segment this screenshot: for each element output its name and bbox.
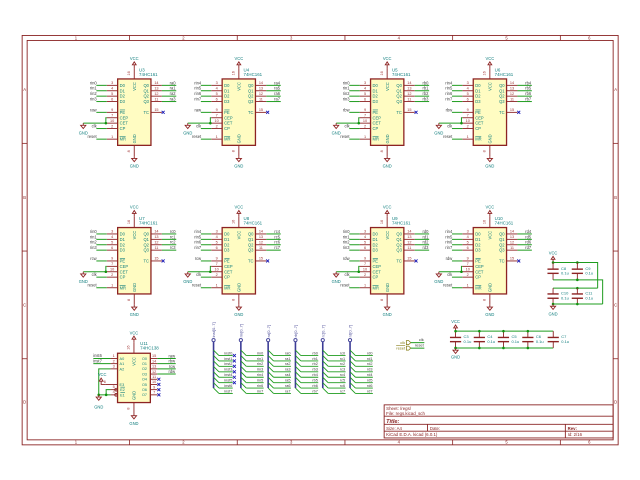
svg-text:rc1: rc1 xyxy=(340,357,345,361)
U10 pin PE (pin 9) xyxy=(462,260,473,262)
svg-text:rd3: rd3 xyxy=(423,245,430,250)
svg-text:rd0: rd0 xyxy=(367,351,373,355)
svg-text:74HC161: 74HC161 xyxy=(495,221,514,226)
svg-text:D3: D3 xyxy=(373,248,379,253)
wire net rin3 to U3.D3 xyxy=(96,101,106,103)
wire U11.O3 to net rdw xyxy=(157,373,175,375)
junction CEP/CET tie xyxy=(209,122,212,125)
svg-text:rin4: rin4 xyxy=(194,80,202,85)
svg-text:MR: MR xyxy=(120,285,126,290)
svg-text:CEP: CEP xyxy=(224,264,233,269)
U8 pin VCC (pin 16) xyxy=(238,217,240,228)
wire net rb1 xyxy=(301,360,318,362)
svg-text:D2: D2 xyxy=(224,94,230,99)
svg-text:9: 9 xyxy=(467,257,469,261)
svg-text:rin6: rin6 xyxy=(445,91,453,96)
svg-text:Q0: Q0 xyxy=(248,83,254,88)
bus entry rd2 xyxy=(350,361,355,366)
bus line rd[0..7] xyxy=(349,342,351,388)
svg-text:Q1: Q1 xyxy=(396,88,402,93)
wire U3.Q1 to net ra1 xyxy=(162,90,176,92)
svg-text:D3: D3 xyxy=(475,248,481,253)
svg-text:Title:: Title: xyxy=(386,419,399,425)
svg-text:MR: MR xyxy=(475,285,481,290)
capacitor C4 xyxy=(478,331,480,337)
svg-text:7: 7 xyxy=(111,262,113,266)
svg-text:GND: GND xyxy=(237,283,242,292)
U8 pin MR (pin 1) xyxy=(211,287,222,289)
U3 pin TC (pin 15) xyxy=(151,111,162,113)
bus entry rb0 xyxy=(295,350,300,355)
junction cap top rail xyxy=(478,330,481,333)
svg-text:rin6: rin6 xyxy=(445,240,453,245)
wire net rin7 to U6.D3 xyxy=(452,101,462,103)
wire net rc4 xyxy=(328,376,345,378)
bus entry ra7 xyxy=(268,388,273,393)
svg-text:8: 8 xyxy=(127,150,131,152)
U5 pin MR (pin 1) xyxy=(360,138,371,140)
junction CEP/CET tie xyxy=(209,270,212,273)
no-connect on U9.TC xyxy=(415,259,418,262)
svg-text:PE: PE xyxy=(120,259,126,264)
svg-text:rb3: rb3 xyxy=(312,368,318,372)
U8 pin D1 (pin 4) xyxy=(211,238,222,240)
wire U10.Q1 to net rd5 xyxy=(517,238,531,240)
ground symbol at U3.CET xyxy=(81,123,86,128)
wire net clk to U9.CP xyxy=(349,276,359,278)
svg-text:GND: GND xyxy=(488,134,493,143)
svg-text:3: 3 xyxy=(111,81,113,85)
wire CEP jog down to CET net xyxy=(358,266,361,271)
svg-text:12: 12 xyxy=(259,92,263,96)
wire U3.Q2 to net ra2 xyxy=(162,95,176,97)
svg-text:1: 1 xyxy=(216,135,218,139)
U11 pin O1 (pin 14) xyxy=(150,363,157,365)
svg-text:rd4: rd4 xyxy=(525,229,532,234)
wire U7.Q2 to net rc2 xyxy=(162,244,176,246)
svg-text:GND: GND xyxy=(130,164,139,169)
svg-text:C: C xyxy=(614,303,617,308)
bus line inst[0..7] xyxy=(213,342,215,388)
svg-text:GND: GND xyxy=(237,134,242,143)
wire net rin5 to U4.D1 xyxy=(201,90,211,92)
bus entry rc0 xyxy=(323,350,328,355)
svg-text:2: 2 xyxy=(113,359,115,363)
wire net rin6 to U4.D2 xyxy=(201,95,211,97)
capacitor C9 xyxy=(576,263,578,270)
no-connect on U11.O7 xyxy=(157,393,160,396)
svg-text:2: 2 xyxy=(467,273,469,277)
svg-text:Q0: Q0 xyxy=(248,232,254,237)
svg-text:Q2: Q2 xyxy=(396,94,402,99)
svg-text:raw: raw xyxy=(195,107,202,112)
svg-text:74HC161: 74HC161 xyxy=(392,72,411,77)
svg-text:Q3: Q3 xyxy=(248,99,254,104)
svg-text:rd[0..7]: rd[0..7] xyxy=(348,325,353,337)
svg-text:CEP: CEP xyxy=(373,115,382,120)
svg-text:Q0: Q0 xyxy=(396,232,402,237)
wire CEP jog down to CET net xyxy=(209,266,212,271)
ground symbol below U4 xyxy=(236,156,241,161)
svg-text:4: 4 xyxy=(111,87,113,91)
svg-text:rin6: rin6 xyxy=(194,240,202,245)
ground symbol at U5.CET xyxy=(334,123,339,128)
wire net rin0 xyxy=(246,355,263,357)
svg-text:GND: GND xyxy=(79,279,88,284)
svg-text:11: 11 xyxy=(152,375,156,379)
svg-text:16: 16 xyxy=(231,71,235,75)
wire net rin4 to U6.D0 xyxy=(452,84,462,86)
svg-text:inst7: inst7 xyxy=(93,358,102,363)
wire net rd2 xyxy=(355,365,372,367)
svg-text:5: 5 xyxy=(111,92,113,96)
wire net rin6 xyxy=(246,387,263,389)
svg-text:PE: PE xyxy=(373,110,379,115)
svg-text:rin2: rin2 xyxy=(257,362,263,366)
wire net rin2 to U7.D2 xyxy=(96,244,106,246)
U3 pin Q3 (pin 11) xyxy=(151,101,162,103)
wire net rb6 xyxy=(301,387,318,389)
svg-text:74HC161: 74HC161 xyxy=(392,221,411,226)
svg-text:reset: reset xyxy=(192,134,202,139)
wire U4.Q1 to net ra5 xyxy=(266,90,280,92)
svg-text:A: A xyxy=(23,87,26,92)
wire net rc5 xyxy=(328,382,345,384)
svg-text:rd3: rd3 xyxy=(367,368,373,372)
wire U6.Q2 to net rb6 xyxy=(517,95,531,97)
U7 pin CEP (pin 7) xyxy=(107,265,118,267)
svg-text:rd5: rd5 xyxy=(525,234,532,239)
svg-text:reset: reset xyxy=(340,134,350,139)
svg-text:74HC161: 74HC161 xyxy=(244,72,263,77)
wire U6.Q1 to net rb5 xyxy=(517,90,531,92)
svg-text:CET: CET xyxy=(224,121,233,126)
U9 pin D1 (pin 4) xyxy=(360,238,371,240)
svg-text:14: 14 xyxy=(407,81,411,85)
svg-text:VCC: VCC xyxy=(385,231,390,240)
svg-text:8: 8 xyxy=(231,299,235,301)
svg-text:Q2: Q2 xyxy=(396,242,402,247)
wire net rc6 xyxy=(328,387,345,389)
junction E2/E1 tie xyxy=(105,394,108,397)
U11 pin E3 (pin 6) xyxy=(105,383,117,385)
svg-text:rc2: rc2 xyxy=(170,240,176,245)
U7 pin Q2 (pin 12) xyxy=(151,244,162,246)
U9 pin CET (pin 10) xyxy=(360,271,371,273)
svg-text:GND: GND xyxy=(94,404,103,409)
VCC power symbol above U9 xyxy=(385,210,389,216)
svg-text:PE: PE xyxy=(120,110,126,115)
svg-text:CET: CET xyxy=(120,269,129,274)
svg-text:D3: D3 xyxy=(475,99,481,104)
ground symbol at U4.CET xyxy=(185,123,190,128)
wire VCC rail C8-C9 xyxy=(553,263,598,289)
wire net rc0 xyxy=(328,355,345,357)
svg-text:ra3: ra3 xyxy=(170,97,177,102)
svg-text:Q1: Q1 xyxy=(143,88,149,93)
svg-text:12: 12 xyxy=(510,241,514,245)
capacitor C8 xyxy=(552,263,554,270)
wire VCC rail C3-C7 xyxy=(456,330,554,332)
svg-text:14: 14 xyxy=(154,81,158,85)
frame row ticks xyxy=(22,142,27,144)
bus entry rd0 xyxy=(350,350,355,355)
svg-text:rb5: rb5 xyxy=(312,379,318,383)
bus entry rc3 xyxy=(323,366,328,371)
svg-text:16: 16 xyxy=(380,220,384,224)
junction cap bottom rail xyxy=(454,347,457,350)
svg-text:inst6: inst6 xyxy=(224,384,232,388)
svg-text:2: 2 xyxy=(216,124,218,128)
ground symbol at U9.CET xyxy=(334,272,339,277)
bus line rc[0..7] xyxy=(322,342,324,388)
ground symbol at U6.CET xyxy=(436,123,441,128)
svg-text:VCC: VCC xyxy=(132,231,137,240)
svg-text:reset: reset xyxy=(340,283,350,288)
junction C9 top xyxy=(576,261,579,264)
U3 pin GND (pin 8) xyxy=(133,145,135,156)
wire net rin1 to U5.D1 xyxy=(349,90,359,92)
svg-text:rb1: rb1 xyxy=(312,357,318,361)
U9 pin TC (pin 15) xyxy=(404,260,415,262)
U7 pin D2 (pin 5) xyxy=(107,244,118,246)
wire net rc2 xyxy=(328,365,345,367)
U4 pin MR (pin 1) xyxy=(211,138,222,140)
wire net rb7 xyxy=(301,392,318,394)
svg-text:Q2: Q2 xyxy=(143,242,149,247)
wire net rdw to U10.PE xyxy=(452,260,462,262)
U8 pin CEP (pin 7) xyxy=(211,265,222,267)
svg-text:12: 12 xyxy=(154,241,158,245)
svg-text:GND: GND xyxy=(434,131,443,136)
bus entry rin5 xyxy=(241,377,246,382)
svg-text:10: 10 xyxy=(363,268,367,272)
U5 pin Q1 (pin 13) xyxy=(404,90,415,92)
svg-text:rbw: rbw xyxy=(446,107,453,112)
title block xyxy=(384,405,613,438)
ground symbol at U8.CET xyxy=(185,272,190,277)
no-connect on inst3 xyxy=(233,370,236,373)
svg-text:Q0: Q0 xyxy=(396,83,402,88)
U3 pin CP (pin 2) xyxy=(107,128,118,130)
svg-text:rin1: rin1 xyxy=(90,234,98,239)
wire net inst5 xyxy=(219,382,233,384)
svg-text:TC: TC xyxy=(248,110,254,115)
bus line ra[0..7] xyxy=(267,342,269,388)
U6 pin Q2 (pin 12) xyxy=(507,95,518,97)
wire net rin2 to U3.D2 xyxy=(96,95,106,97)
svg-text:rc0: rc0 xyxy=(170,229,176,234)
wire net ra2 xyxy=(274,365,291,367)
capacitor C6 xyxy=(527,331,529,337)
svg-text:inst[0..7]: inst[0..7] xyxy=(211,322,216,337)
U10 pin Q0 (pin 14) xyxy=(507,233,518,235)
wire GND to U7.CET xyxy=(83,271,107,273)
wire net rin5 to U6.D1 xyxy=(452,90,462,92)
svg-text:rin5: rin5 xyxy=(194,234,202,239)
wire net rin1 to U9.D1 xyxy=(349,238,359,240)
bus entry ra1 xyxy=(268,356,273,361)
wire net reset to U8.MR xyxy=(201,287,211,289)
bus entry ra5 xyxy=(268,377,273,382)
svg-text:Q2: Q2 xyxy=(248,94,254,99)
ground symbol below C10 xyxy=(550,304,555,309)
U6 pin TC (pin 15) xyxy=(507,111,518,113)
U5 pin D0 (pin 3) xyxy=(360,84,371,86)
svg-text:ra4: ra4 xyxy=(274,80,281,85)
wire U11.A2 down to ground rail xyxy=(99,369,111,395)
svg-text:O5: O5 xyxy=(142,383,147,387)
wire U4.Q0 to net ra4 xyxy=(266,84,280,86)
svg-text:Q0: Q0 xyxy=(143,232,149,237)
wire net clk to U6.CP xyxy=(452,128,462,130)
svg-text:rin4: rin4 xyxy=(445,80,453,85)
svg-text:O6: O6 xyxy=(142,388,147,392)
svg-text:74HC161: 74HC161 xyxy=(244,221,263,226)
svg-text:9: 9 xyxy=(111,257,113,261)
counter U10 (74HC161) xyxy=(473,228,506,294)
svg-text:7: 7 xyxy=(153,391,155,395)
wire net rd5 xyxy=(355,382,372,384)
U3 pin CEP (pin 7) xyxy=(107,117,118,119)
svg-text:A2: A2 xyxy=(120,367,125,371)
svg-text:rd7: rd7 xyxy=(525,245,532,250)
svg-text:rin6: rin6 xyxy=(257,384,263,388)
junction A2/E1/GND tie xyxy=(97,394,100,397)
svg-text:GND: GND xyxy=(130,312,139,317)
wire net rbw to U6.PE xyxy=(452,111,462,113)
svg-text:D2: D2 xyxy=(224,242,230,247)
svg-text:D0: D0 xyxy=(120,232,126,237)
svg-text:GND: GND xyxy=(129,421,138,426)
svg-text:ra[0..7]: ra[0..7] xyxy=(266,325,271,337)
svg-text:GND: GND xyxy=(383,164,392,169)
svg-text:GND: GND xyxy=(488,283,493,292)
svg-text:Q1: Q1 xyxy=(248,237,254,242)
bus entry inst0 xyxy=(214,350,219,355)
svg-text:D3: D3 xyxy=(373,99,379,104)
svg-text:GND: GND xyxy=(485,312,494,317)
svg-text:rin1: rin1 xyxy=(90,86,98,91)
no-connect on U4.TC xyxy=(266,111,269,114)
U8 pin Q1 (pin 13) xyxy=(255,238,266,240)
wire net rin2 to U5.D2 xyxy=(349,95,359,97)
svg-text:11: 11 xyxy=(510,97,514,101)
svg-text:4: 4 xyxy=(216,87,218,91)
svg-text:ra2: ra2 xyxy=(170,91,177,96)
wire net clk to U8.CP xyxy=(201,276,211,278)
junction CEP/CET tie xyxy=(105,122,108,125)
VCC power symbol above U11 xyxy=(132,336,136,342)
junction CEP/CET tie xyxy=(105,270,108,273)
svg-text:1: 1 xyxy=(467,284,469,288)
wire U10.Q2 to net rd6 xyxy=(517,244,531,246)
svg-text:reset: reset xyxy=(396,346,406,351)
svg-text:rb7: rb7 xyxy=(525,97,532,102)
svg-text:VCC: VCC xyxy=(130,330,139,335)
svg-text:15: 15 xyxy=(407,257,411,261)
svg-text:4: 4 xyxy=(216,235,218,239)
svg-text:3: 3 xyxy=(216,81,218,85)
svg-text:GND: GND xyxy=(332,131,341,136)
svg-text:rd6: rd6 xyxy=(525,240,532,245)
svg-text:D0: D0 xyxy=(224,83,230,88)
bus entry rd7 xyxy=(350,388,355,393)
svg-text:rin5: rin5 xyxy=(445,234,453,239)
svg-text:rb0: rb0 xyxy=(312,351,318,355)
U3 pin Q1 (pin 13) xyxy=(151,90,162,92)
U4 pin CEP (pin 7) xyxy=(211,117,222,119)
svg-text:Q1: Q1 xyxy=(396,237,402,242)
U9 pin CP (pin 2) xyxy=(360,276,371,278)
svg-text:1: 1 xyxy=(364,135,366,139)
svg-text:Q3: Q3 xyxy=(499,99,505,104)
svg-text:Q3: Q3 xyxy=(143,99,149,104)
svg-text:0.1u: 0.1u xyxy=(487,339,495,344)
svg-text:reset: reset xyxy=(192,283,202,288)
U9 pin VCC (pin 16) xyxy=(386,217,388,228)
bus entry rin4 xyxy=(241,372,246,377)
svg-text:GND: GND xyxy=(332,279,341,284)
svg-text:GND: GND xyxy=(183,131,192,136)
U3 pin D2 (pin 5) xyxy=(107,95,118,97)
wire net rin3 to U9.D3 xyxy=(349,249,359,251)
svg-text:12: 12 xyxy=(154,92,158,96)
ground symbol at U11 enables xyxy=(96,395,101,400)
wire U6.Q3 to net rb7 xyxy=(517,101,531,103)
wire net raw to U4.PE xyxy=(201,111,211,113)
U10 pin TC (pin 15) xyxy=(507,260,518,262)
svg-text:16: 16 xyxy=(380,71,384,75)
wire net rin7 to U4.D3 xyxy=(201,101,211,103)
bus entry rin3 xyxy=(241,366,246,371)
bus entry inst6 xyxy=(214,383,219,388)
no-connect on U6.TC xyxy=(517,111,520,114)
U3 pin PE (pin 9) xyxy=(107,111,118,113)
U9 pin D0 (pin 3) xyxy=(360,233,371,235)
svg-text:GND: GND xyxy=(385,283,390,292)
wire net rin2 xyxy=(246,365,263,367)
U4 pin D2 (pin 5) xyxy=(211,95,222,97)
svg-text:rin0: rin0 xyxy=(343,80,351,85)
U7 pin D3 (pin 6) xyxy=(107,249,118,251)
U11 pin A2 (pin 3) xyxy=(111,368,118,370)
U7 pin VCC (pin 16) xyxy=(133,217,135,228)
svg-text:rin3: rin3 xyxy=(343,97,351,102)
wire net rin6 to U10.D2 xyxy=(452,244,462,246)
svg-text:clk: clk xyxy=(419,337,424,342)
svg-text:0.1u: 0.1u xyxy=(561,271,569,276)
svg-text:8: 8 xyxy=(380,150,384,152)
svg-text:rin5: rin5 xyxy=(257,379,263,383)
U3 pin CET (pin 10) xyxy=(107,122,118,124)
ground symbol at U7.CET xyxy=(81,272,86,277)
junction C9 bottom xyxy=(576,279,579,282)
svg-text:CET: CET xyxy=(120,121,129,126)
wire net rb4 xyxy=(301,376,318,378)
wire net rin5 to U8.D1 xyxy=(201,238,211,240)
wire CEP jog down to CET net xyxy=(105,266,108,271)
svg-text:11: 11 xyxy=(259,246,263,250)
U5 pin CP (pin 2) xyxy=(360,128,371,130)
svg-text:4: 4 xyxy=(467,235,469,239)
U10 pin VCC (pin 16) xyxy=(489,217,491,228)
bus entry rin0 xyxy=(241,350,246,355)
svg-text:rd7: rd7 xyxy=(367,389,373,393)
svg-text:13: 13 xyxy=(510,87,514,91)
no-connect on inst1 xyxy=(233,359,236,362)
svg-text:GND: GND xyxy=(451,354,460,359)
